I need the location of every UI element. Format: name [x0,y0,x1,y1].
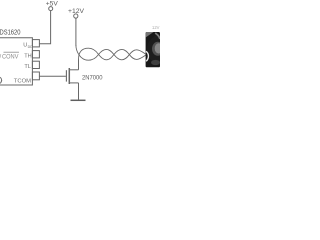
wire +12V down to twisted pair [75,18,77,46]
svg-text:DD: DD [28,45,34,49]
twisted pair wire strand B (from drain) [79,48,146,60]
svg-text:12V: 12V [152,25,160,30]
left label CONV (overlined, cut off) [0,52,19,60]
twisted pair wire strand A (from +12V) [76,45,146,60]
wire VDD pin to +5V [39,11,50,44]
pin box TL [32,61,39,68]
svg-text:TH: TH [24,54,31,60]
fan M1 (photo) [146,32,178,67]
IC U1 DS1620 outline [0,38,32,85]
svg-text:DS1620: DS1620 [0,28,21,37]
pin box TCOM [32,72,39,80]
pin label UDD [23,43,33,50]
pin box VDD (pin 8) [32,40,39,47]
svg-text:CONV: CONV [2,54,19,60]
left label ) cut off [0,77,1,83]
pin box TH [32,51,39,58]
transistor Q1 2N7000 MOSFET [66,60,78,100]
svg-text:TL: TL [24,64,31,70]
wire TCOM pin to gate [39,75,66,77]
svg-text:2N7000: 2N7000 [82,75,103,82]
ground [71,99,86,101]
svg-text:+5V: +5V [46,1,59,8]
svg-text:TCOM: TCOM [14,78,31,84]
